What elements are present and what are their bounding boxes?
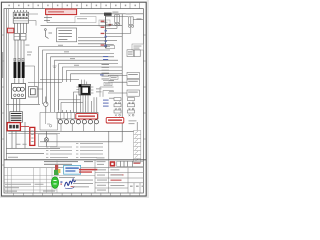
title block text right cells	[97, 157, 144, 190]
ignition switch symbol	[45, 29, 53, 39]
contactor poles (black bars)	[14, 62, 25, 78]
labelled wire row 3	[108, 90, 139, 96]
wire corners into band	[59, 100, 84, 113]
fuse highlight box (red)	[7, 28, 13, 33]
outer drawing frame	[1, 2, 146, 196]
junction box small top	[104, 13, 112, 16]
red document number text	[79, 169, 97, 173]
sensor group row2 col1	[114, 104, 121, 110]
component label text top	[44, 17, 52, 21]
title block small text rows center	[43, 177, 93, 192]
wire horizontal y82	[28, 82, 62, 84]
ground dashes center	[53, 66, 57, 67]
title block horizontal line 2	[4, 167, 143, 169]
revision table left	[4, 160, 57, 193]
sensor group row1 col2	[128, 98, 135, 104]
connector block K1	[14, 33, 26, 40]
title block center divider	[57, 175, 95, 177]
mini label box b	[104, 82, 112, 85]
wire group feeder verticals	[15, 10, 27, 33]
page background	[0, 0, 149, 198]
title block vertical dividers right	[95, 160, 140, 193]
wire group motor to terminal strip	[13, 99, 19, 112]
signature scribble (blue)	[65, 179, 76, 189]
company logo figure	[54, 165, 60, 175]
lamp symbol center	[44, 97, 48, 113]
wire left vertical bus	[5, 9, 7, 160]
blue wire codes top	[100, 56, 108, 75]
wire y22	[47, 22, 75, 24]
wire group bars to motor	[15, 78, 23, 83]
mini label box a	[110, 76, 118, 79]
highlighted title box top (red)	[46, 9, 77, 15]
wire bottom horizontal 153	[6, 153, 44, 155]
wire code marks rows	[109, 73, 114, 99]
sensor group row1 col1	[114, 98, 121, 104]
ECU bottom pins	[81, 95, 89, 101]
viewer background bottom strip	[0, 196, 149, 198]
relay R2 label	[126, 13, 142, 19]
wire bottom horizontal 148	[6, 147, 60, 149]
wire horizontal y79	[40, 79, 79, 81]
pin label boxes pair top	[127, 50, 140, 57]
relay R1 label	[112, 12, 118, 13]
legend column 1	[46, 147, 72, 158]
label text right of red box	[129, 120, 137, 124]
wire label marks red column	[101, 21, 105, 46]
wire horizontal y112	[60, 112, 80, 114]
connector ladder right	[134, 130, 141, 162]
pin label stack right of ECU	[102, 64, 110, 79]
gauge circles row	[58, 120, 98, 124]
cluster connector band	[57, 113, 98, 119]
relay R2 with coil circles	[128, 17, 133, 34]
fuse row top B	[13, 19, 28, 24]
wire to ladder	[136, 122, 138, 130]
tag text bottom-left	[16, 143, 27, 146]
pin label box mid	[107, 46, 115, 49]
relay R1 with coil circles	[115, 15, 120, 29]
title strip text rows	[44, 161, 93, 165]
inner drawing frame	[4, 9, 143, 193]
title block top line	[4, 159, 146, 161]
wire drop from red box	[46, 15, 48, 23]
wire bars to relay box	[25, 66, 43, 89]
bottom zone tick marks	[14, 193, 140, 196]
highlighted part number (red box)	[76, 114, 98, 119]
top zone tick marks	[14, 2, 140, 8]
red callout line	[21, 126, 29, 128]
relay box left-center	[29, 86, 38, 97]
junction marks blue on trunk	[104, 30, 107, 47]
wire cluster drops	[61, 124, 95, 132]
tag text mid-right	[96, 88, 102, 92]
wire trunk vertical x105.6	[105, 14, 107, 48]
lamp symbol bottom-left	[44, 131, 48, 146]
wire top bus under frame	[80, 13, 143, 15]
certification box (cyan)	[64, 165, 81, 174]
tiny marks right of stamp	[60, 181, 62, 184]
contactor terminal caps	[14, 58, 24, 61]
component enclosure box upper	[40, 113, 58, 131]
ECU module with dark frame	[79, 84, 91, 95]
approval stamp (green ellipse)	[51, 177, 58, 189]
sensor group row3 col2	[128, 110, 135, 116]
wire second left vertical	[7, 9, 9, 131]
wire trunk vertical x122	[121, 14, 123, 142]
wire top horizontal from badge	[41, 25, 123, 27]
title block horizontal dividers right	[95, 173, 143, 188]
label box top center	[75, 17, 96, 23]
fuse row top A	[13, 12, 28, 17]
labelled wire row 1	[108, 72, 139, 78]
wire nested corner bundle	[39, 47, 122, 112]
left zone tick marks	[1, 35, 4, 165]
viewer background right strip	[147, 0, 149, 198]
note box right edge	[132, 44, 143, 50]
sensor group row3 col1	[114, 110, 121, 116]
left margin revision text (rotated)	[1, 52, 4, 78]
right zone tick marks	[143, 35, 146, 139]
wire branch rows from trunk	[106, 16, 144, 44]
revision table text	[5, 157, 44, 192]
ECU top pins	[82, 80, 87, 85]
wire group strip to bottom bus	[12, 122, 25, 148]
component enclosure box lower with lamp	[39, 134, 58, 147]
wire horizontal y104	[6, 104, 40, 106]
wire secondary bus	[40, 141, 122, 143]
wire stubs right of fuse rows	[29, 14, 38, 26]
note box with text	[57, 28, 77, 42]
revision strip boxes	[110, 161, 144, 166]
wire main bottom bus	[8, 130, 133, 132]
wire rows mid-left of trunk	[78, 38, 106, 44]
labelled wire row 2	[108, 79, 139, 85]
wire tertiary bus	[8, 133, 60, 135]
wire tag marks	[25, 45, 32, 56]
wire group below connector	[15, 40, 24, 62]
terminal strip X1	[10, 112, 23, 123]
label box top center 2	[99, 20, 110, 26]
red mark at label box2	[109, 24, 112, 25]
wire vertical right of legend	[108, 131, 110, 159]
ECU left pins	[76, 87, 79, 92]
wire corners mid-right	[100, 81, 114, 97]
highlighted relay column (red vertical box)	[30, 127, 35, 145]
highlighted terminal block (red box)	[7, 123, 20, 131]
wire tick labels on bundle	[58, 45, 79, 66]
revision description red text	[111, 174, 124, 180]
highlighted connector label (red box right)	[106, 118, 124, 123]
sensor group row2 col2	[128, 104, 135, 110]
wire verticals center-down	[63, 110, 71, 118]
zone label text top	[8, 5, 135, 7]
blue wire codes right column	[103, 100, 109, 107]
wire nested corners below ECU	[74, 92, 97, 113]
ECU right pins	[91, 87, 94, 93]
motor / meter box with gauges	[12, 83, 26, 98]
legend column 2	[76, 143, 103, 158]
